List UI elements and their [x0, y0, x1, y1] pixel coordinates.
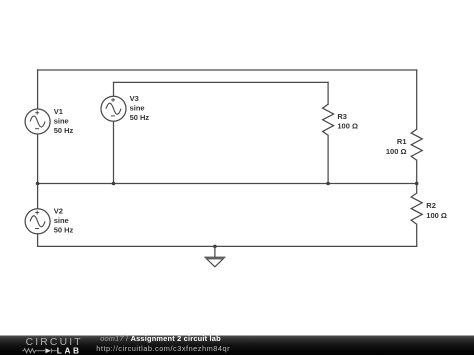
svg-text:sine: sine [54, 216, 69, 225]
label V2 value [54, 207, 74, 235]
svg-text:100 Ω: 100 Ω [426, 211, 447, 220]
svg-text:sine: sine [130, 104, 145, 113]
svg-text:R2: R2 [426, 201, 436, 210]
voltage source V1 [25, 109, 50, 134]
svg-text:V3: V3 [130, 94, 139, 103]
junction node left middle [36, 182, 40, 186]
svg-text:100 Ω: 100 Ω [386, 147, 407, 156]
wire R2 bottom lead [416, 224, 418, 246]
junction node R3 middle [326, 182, 330, 186]
wire bottom (node V2 to R2 via ground) [38, 245, 417, 247]
ground symbol [204, 246, 225, 266]
wire right upper segment R1 top lead [416, 70, 418, 129]
wire V3 bottom lead to middle node [113, 121, 115, 183]
label R2 value [426, 201, 447, 220]
svg-text:V1: V1 [54, 107, 63, 116]
label V3 value [130, 94, 150, 122]
junction node V3 middle [112, 182, 116, 186]
wire middle horizontal node [38, 183, 417, 185]
wire V2 bottom lead [37, 234, 39, 247]
wire inner top (node V3 to R3) [114, 81, 329, 83]
svg-text:V2: V2 [54, 207, 63, 216]
watermark title text [96, 334, 230, 353]
wire R3 bottom lead to middle node [327, 135, 329, 183]
wire left upper segment V1 top lead [37, 70, 39, 109]
label V1 value [54, 107, 74, 135]
junction node ground on bottom wire [213, 245, 217, 249]
svg-text:R1: R1 [397, 137, 407, 146]
wire V3 top lead [113, 82, 115, 96]
junction node R1 R2 middle [415, 182, 419, 186]
svg-text:R3: R3 [337, 112, 347, 121]
svg-text:50 Hz: 50 Hz [54, 226, 74, 235]
CircuitLab logo [22, 337, 82, 355]
wire V1 bottom lead to middle node [37, 134, 39, 209]
voltage source V2 [25, 209, 50, 234]
resistor R1 [411, 129, 422, 160]
wire R3 top lead [327, 82, 329, 104]
wire top outer (node from V1 to R1) [38, 69, 417, 71]
svg-text:LAB: LAB [57, 345, 82, 355]
resistor R3 [323, 104, 334, 135]
svg-text:sine: sine [54, 116, 69, 125]
label R1 value [386, 137, 407, 156]
svg-text:50 Hz: 50 Hz [54, 126, 74, 135]
svg-text:100 Ω: 100 Ω [337, 121, 358, 130]
wire R1 bottom to R2 top [416, 160, 418, 193]
svg-text:http://circuitlab.com/c3xfnezh: http://circuitlab.com/c3xfnezhm84qr [96, 344, 230, 353]
svg-text:oom17 / Assignment 2 circuit l: oom17 / Assignment 2 circuit lab [100, 334, 221, 343]
resistor R2 [411, 193, 422, 224]
watermark bar [0, 336, 474, 355]
voltage source V3 [101, 96, 126, 121]
label R3 value [337, 112, 358, 130]
svg-text:50 Hz: 50 Hz [130, 113, 150, 122]
